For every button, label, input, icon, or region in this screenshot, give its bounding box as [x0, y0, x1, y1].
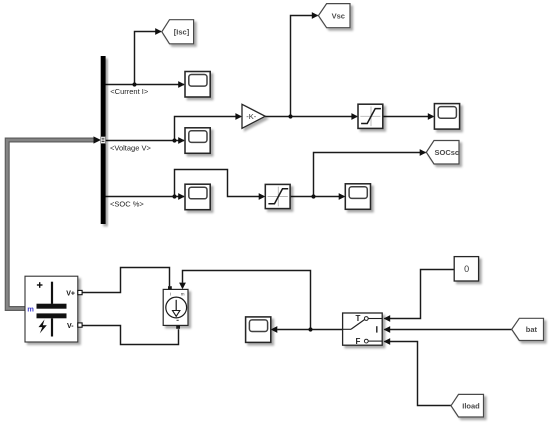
svg-text:bat: bat — [526, 325, 538, 334]
svg-text:0: 0 — [464, 264, 469, 274]
svg-text:<SOC %>: <SOC %> — [110, 199, 144, 208]
svg-text:SOCsc: SOCsc — [434, 148, 459, 157]
svg-text:<Voltage V>: <Voltage V> — [110, 143, 151, 152]
svg-text:[Isc]: [Isc] — [174, 28, 190, 37]
svg-text:Iload: Iload — [462, 402, 480, 411]
svg-text:F: F — [356, 337, 361, 346]
svg-text:V-: V- — [67, 323, 74, 330]
svg-text:m: m — [181, 292, 185, 297]
svg-text:Vsc: Vsc — [332, 11, 345, 20]
svg-text:T: T — [356, 314, 361, 323]
svg-text:i: i — [170, 291, 171, 296]
svg-text:-K-: -K- — [246, 112, 257, 121]
svg-text:V+: V+ — [66, 290, 75, 297]
svg-text:<Current I>: <Current I> — [110, 87, 149, 96]
svg-text:m: m — [27, 305, 34, 314]
